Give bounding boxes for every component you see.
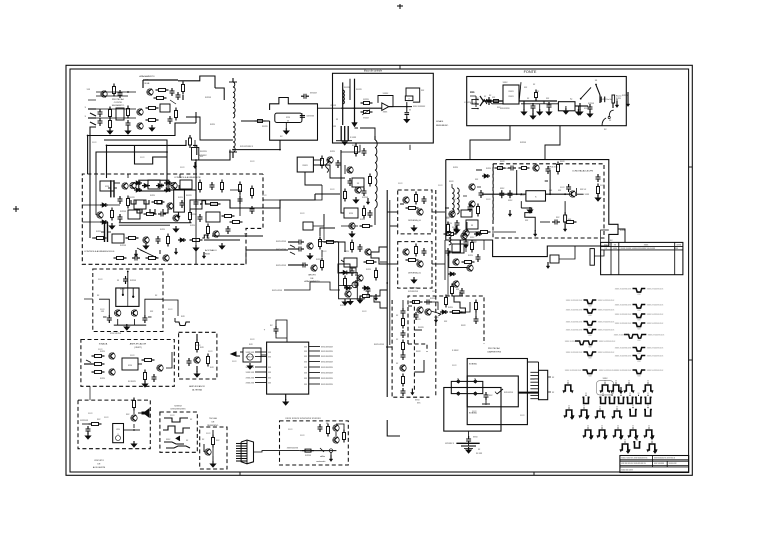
svg-text:XXXX XXXXX XXXXXXXXXXXXX XX-XX: XXXX XXXXX XXXXXXXXXXXXX XX-XXXXX: [621, 248, 656, 250]
svg-text:XXXXXX: XXXXXX: [310, 93, 318, 95]
svg-text:XXX.XXXXXX.X: XXX.XXXXXX.X: [240, 146, 254, 148]
svg-text:XXXX.X.XXXXX.XX.X: XXXX.X.XXXXX.XX.X: [647, 323, 664, 325]
svg-text:XXXX: XXXX: [360, 219, 366, 221]
svg-text:XXXX: XXXX: [486, 168, 492, 170]
svg-text:adBor: adBor: [320, 455, 325, 458]
svg-text:XXXX: XXXX: [302, 165, 308, 167]
svg-text:XXXX: XXXX: [100, 378, 106, 380]
svg-text:SINAIS: SINAIS: [436, 120, 444, 123]
svg-text:(VERT): (VERT): [134, 347, 142, 349]
svg-text:XXXX.X.XXXXX.XX.X: XXXX.X.XXXXX.XX.X: [647, 289, 664, 291]
svg-text:XXXX.XXXX: XXXX.XXXX: [374, 344, 385, 346]
svg-text:XX: XX: [647, 393, 649, 395]
svg-text:XXX X.X: XXX X.X: [580, 189, 587, 191]
svg-text:XX: XX: [629, 393, 631, 395]
svg-text:REFERENC.: REFERENC.: [207, 425, 219, 427]
svg-text:CONTROLE AC/AVERSOR ES: CONTROLE AC/AVERSOR ES: [84, 250, 115, 253]
svg-text:XXX: XXX: [304, 378, 307, 380]
svg-text:C/ARRETERS: C/ARRETERS: [487, 351, 502, 354]
svg-text:XX: XX: [624, 440, 626, 442]
svg-text:XX: XX: [636, 437, 638, 439]
svg-text:XXXXXX: XXXXXX: [200, 151, 208, 153]
svg-text:PROTECAO: PROTECAO: [112, 98, 125, 101]
svg-text:XXXXXX: XXXXXX: [199, 155, 207, 157]
svg-text:GRUPO: GRUPO: [308, 275, 316, 277]
svg-text:XXXX: XXXX: [447, 223, 453, 225]
svg-text:XXXX: XXXX: [352, 145, 358, 147]
svg-text:XX.XXX: XX.XXX: [476, 453, 483, 455]
svg-text:AON.GENTE: AON.GENTE: [93, 466, 106, 469]
svg-text:XX: XX: [604, 381, 606, 383]
svg-text:XXXXX: XXXXX: [120, 211, 127, 213]
svg-text:DE: DE: [310, 278, 314, 280]
svg-text:XXX: XXX: [268, 377, 271, 379]
svg-text:XXXXX: XXXXX: [340, 305, 347, 307]
svg-text:XXXX.XXXXXX: XXXX.XXXXXX: [321, 346, 334, 348]
svg-text:XX: XX: [409, 110, 411, 112]
svg-text:XXXXXX X: XXXXXX X: [445, 443, 455, 445]
svg-text:CONTROLE AC/AVERSTR: CONTROLE AC/AVERSTR: [174, 176, 201, 179]
svg-text:XXXXX: XXXXX: [305, 455, 312, 457]
svg-text:REFERENC.: REFERENC.: [436, 125, 449, 127]
svg-text:XX: XX: [585, 393, 587, 395]
svg-text:XX: XX: [568, 406, 570, 408]
svg-text:XXXX.X.XXXXX.XX.X: XXXX.X.XXXXX.XX.X: [615, 348, 632, 350]
svg-text:XX: XX: [617, 426, 619, 428]
svg-text:XXXX: XXXX: [603, 378, 609, 380]
svg-text:XXXX.X.XXXXX.XX.X: XXXX.X.XXXXX.XX.X: [599, 341, 616, 343]
svg-text:XXXXXXXXXXXX: XXXXXXXXXXXX: [170, 409, 186, 411]
svg-text:APAGAMENTO: APAGAMENTO: [304, 280, 320, 283]
svg-text:XXXX.X.XXXXX.XX.X: XXXX.X.XXXXX.XX.X: [566, 300, 583, 302]
svg-text:XXXX.X.XXXXX.XX.X: XXXX.X.XXXXX.XX.X: [647, 305, 664, 307]
svg-text:XXXXXXX: XXXXXXX: [307, 116, 315, 118]
svg-text:XXXX.XXXXXX: XXXX.XXXXXX: [321, 356, 334, 358]
svg-text:APAGAMENTO: APAGAMENTO: [139, 75, 155, 78]
svg-text:XXXXXXXXXX X XXX XXX X: XXXXXXXXXX X XXX XXX X: [654, 457, 676, 459]
svg-text:XXXX: XXXX: [508, 91, 514, 93]
svg-text:AMPLIFICADOR: AMPLIFICADOR: [130, 343, 147, 346]
svg-text:X.XXXX: X.XXXX: [452, 350, 459, 352]
svg-text:XXXX: XXXX: [100, 351, 106, 353]
svg-text:XXXX.X.XXXXX.XX.X: XXXX.X.XXXXX.XX.X: [647, 348, 664, 350]
svg-text:DRIVER/A_00: DRIVER/A_00: [408, 219, 422, 222]
svg-text:XXXX.XXXXXX: XXXX.XXXXXX: [321, 367, 334, 369]
svg-text:XXXX.X.XXXXX.XX.X: XXXX.X.XXXXX.XX.X: [599, 370, 616, 372]
svg-text:XXX: XXX: [268, 356, 271, 358]
svg-text:XXXXXXXXXX: XXXXXXXXXX: [287, 448, 299, 450]
svg-text:XXXX.X.XXXXX.XX.X: XXXX.X.XXXXX.XX.X: [648, 335, 665, 337]
svg-text:XXXXXX: XXXXXX: [174, 406, 182, 408]
svg-text:XXXXX: XXXXX: [356, 89, 363, 91]
svg-text:XXX.XXXXX: XXX.XXXXX: [110, 333, 122, 335]
svg-text:XXX: XXX: [304, 356, 307, 358]
svg-text:bloco de controle: bloco de controle: [364, 69, 383, 72]
svg-text:XXXXX: XXXXX: [262, 126, 269, 128]
svg-text:XX: XX: [632, 426, 634, 428]
svg-text:XXXX.X.XXXXX.XX.X: XXXX.X.XXXXX.XX.X: [565, 341, 582, 343]
svg-text:XXXX.X.XXXXX.XX.X: XXXX.X.XXXXX.XX.X: [566, 330, 583, 332]
svg-text:XXXX. XXXX XX XXX XXXXXXX XX: XXXX. XXXX XX XXX XXXXXXX XX: [621, 457, 648, 459]
svg-text:XXXX.XXXXXX: XXXX.XXXXXX: [321, 372, 334, 374]
svg-text:XXXX.XXXXXXX: XXXX.XXXXXXX: [413, 106, 426, 108]
svg-text:XXX: XXX: [268, 352, 271, 354]
svg-text:CONTR.: CONTR.: [114, 102, 123, 104]
svg-text:SINAL/A: SINAL/A: [99, 343, 108, 346]
svg-text:XX: XX: [567, 381, 569, 383]
svg-text:DRIVER/A_00: DRIVER/A_00: [408, 271, 422, 274]
svg-text:XXXX.XXXXXX: XXXX.XXXXXX: [321, 384, 334, 386]
svg-text:XXX: XXX: [304, 372, 307, 374]
svg-text:X.XXXX: X.XXXX: [464, 102, 471, 104]
svg-text:XXXXX: XXXXX: [383, 93, 390, 95]
svg-text:TECLAS: TECLAS: [209, 417, 217, 420]
svg-text:XXXX: XXXX: [160, 229, 166, 231]
svg-text:XX: XX: [587, 426, 589, 428]
svg-text:XXXX.XXXX: XXXX.XXXX: [272, 290, 283, 292]
svg-text:XXXX: XXXX: [503, 82, 509, 84]
svg-text:XXXX.XXXX: XXXX.XXXX: [276, 241, 287, 243]
svg-text:XXXX.X.XXXXX.XX.X: XXXX.X.XXXXX.XX.X: [566, 322, 583, 324]
svg-text:XXXX.X.XXXXX.XX.X: XXXX.X.XXXXX.XX.X: [615, 356, 632, 358]
svg-text:XXXXXXXX: XXXXXXXX: [408, 291, 419, 293]
svg-text:ACIONADO: ACIONADO: [205, 249, 217, 252]
svg-text:XXXX.X.XXXXX.XX.X: XXXX.X.XXXXX.XX.X: [615, 289, 632, 291]
svg-text:XXXX.X.XXXXX.XX.X: XXXX.X.XXXXX.XX.X: [566, 310, 583, 312]
svg-text:XXXX.X.XXXXX.XX.X: XXXX.X.XXXXX.XX.X: [566, 352, 583, 354]
svg-text:XXXX.X.XXXXX.XX.X: XXXX.X.XXXXX.XX.X: [615, 305, 632, 307]
svg-text:XX: XX: [620, 393, 622, 395]
svg-text:XXX XXXXXX: XXX XXXXXX: [654, 463, 665, 465]
svg-text:XXXX.X.XXXXX.XX.X: XXXX.X.XXXXX.XX.X: [615, 314, 632, 316]
svg-text:XXXX.X.XXXXX.XX.X: XXXX.X.XXXXX.XX.X: [598, 352, 615, 354]
svg-text:XXX.XXXX: XXX.XXXX: [504, 392, 514, 394]
svg-text:XXXX: XXXX: [453, 167, 459, 169]
svg-text:RGB: RGB: [205, 254, 210, 256]
svg-text:XXX: XXX: [304, 367, 307, 369]
svg-text:XXX: XXX: [268, 367, 271, 369]
svg-text:XXXX.X.XXXXX.XX.X: XXXX.X.XXXXX.XX.X: [598, 300, 615, 302]
svg-text:CIRCUITO: CIRCUITO: [94, 460, 104, 462]
svg-text:XX: XX: [651, 440, 653, 442]
svg-text:XX: XX: [615, 381, 617, 383]
svg-text:XXXX: XXXX: [430, 298, 436, 300]
svg-text:XXX: XXX: [268, 382, 271, 384]
svg-text:SEGMENTO: SEGMENTO: [112, 105, 125, 107]
svg-text:XX: XX: [611, 393, 613, 395]
svg-text:XXXXX: XXXXX: [130, 280, 137, 282]
svg-text:XXXX.XXX: XXXX.XXX: [246, 382, 255, 384]
svg-text:XXXX: XXXX: [470, 92, 476, 94]
svg-text:XXX XX XXX XX.XXX.XXX.XX XX: XXX XX XXX XX.XXX.XXX.XX XX: [621, 463, 646, 465]
svg-text:continuado: continuado: [316, 460, 325, 463]
svg-text:XXXX: XXXX: [190, 225, 196, 227]
svg-text:XXX: XXX: [128, 365, 133, 367]
svg-text:XXX: XXX: [304, 361, 307, 363]
svg-text:X.XXXX: X.XXXX: [350, 137, 357, 139]
svg-text:BOBINA: BOBINA: [469, 363, 477, 366]
svg-text:XXXX: XXXX: [468, 255, 474, 257]
svg-text:XXXX.X.XXXXX.XX.X: XXXX.X.XXXXX.XX.X: [598, 330, 615, 332]
svg-text:XX: XX: [602, 393, 604, 395]
svg-text:Riceve: Riceve: [616, 96, 622, 98]
svg-text:ALTERNA: ALTERNA: [192, 389, 202, 392]
svg-text:XXXX: XXXX: [96, 231, 102, 233]
svg-text:XXX: XXX: [304, 384, 307, 386]
svg-text:XXXX.XXX: XXXX.XXX: [246, 372, 255, 374]
svg-text:Fio.Xo: Fio.Xo: [607, 99, 612, 101]
svg-text:XX: XX: [648, 426, 650, 428]
svg-text:XX: XX: [583, 406, 585, 408]
svg-text:XXXXX: XXXXX: [520, 142, 527, 144]
svg-text:XXXXX: XXXXX: [418, 327, 425, 329]
svg-text:XX: XX: [599, 407, 601, 409]
svg-text:XXX: XXX: [304, 346, 307, 348]
svg-text:XX: XX: [601, 426, 603, 428]
svg-text:XXXXX: XXXXX: [330, 105, 337, 107]
svg-text:XX: XX: [628, 381, 630, 383]
svg-text:XX: XX: [647, 381, 649, 383]
svg-text:Xp: Xp: [570, 99, 572, 101]
svg-text:XXXX.X.XXXXX.XX.X: XXXX.X.XXXXX.XX.X: [614, 335, 631, 337]
svg-text:XXXX.XXXXXX: XXXX.XXXXXX: [321, 361, 334, 363]
svg-text:XXXX.XXXXXX: XXXX.XXXXXX: [321, 351, 334, 353]
svg-text:XXXXXXXXX: XXXXXXXXX: [500, 108, 511, 110]
svg-text:XXXX: XXXX: [448, 307, 454, 309]
svg-text:XXXXX: XXXXX: [363, 118, 370, 120]
svg-text:FONTE: FONTE: [524, 70, 537, 74]
svg-text:XXXX.X.XXXXX.XX.X: XXXX.X.XXXXX.XX.X: [615, 370, 632, 372]
svg-text:XXXX.X.XXXXX.XX.X: XXXX.X.XXXXX.XX.X: [647, 370, 664, 372]
svg-text:XXXX: XXXX: [508, 96, 514, 98]
svg-text:PROTECAO: PROTECAO: [488, 347, 501, 350]
svg-text:XXXX XX XXXX: XXXX XX XXXX: [621, 470, 633, 472]
svg-text:XXXXX: XXXXX: [588, 103, 595, 105]
svg-text:XXXX: XXXX: [366, 269, 372, 271]
svg-text:XXXX.XXXXXX: XXXX.XXXXXX: [321, 378, 334, 380]
svg-text:XXX: XXX: [286, 117, 291, 119]
svg-text:COMUTACAO AC/FN: COMUTACAO AC/FN: [572, 170, 594, 173]
svg-text:XXXXX: XXXXX: [363, 99, 370, 101]
svg-text:XXXX.X.XXXXX.XX.X: XXXX.X.XXXXX.XX.X: [615, 323, 632, 325]
svg-text:XXXX XXXXX XXXXXXXX XXXXXX: XXXX XXXXX XXXXXXXX XXXXXX: [285, 418, 321, 420]
svg-text:XXX: XXX: [268, 372, 271, 374]
svg-text:RGB: RGB: [145, 83, 150, 85]
svg-text:XXXX.XXXX: XXXX.XXXX: [276, 265, 287, 267]
svg-text:XXXXX: XXXXX: [205, 97, 212, 99]
svg-text:XXXX: XXXX: [150, 195, 156, 197]
svg-text:XX: XX: [616, 407, 618, 409]
svg-text:XX: XX: [637, 393, 639, 395]
svg-text:XXXXX: XXXXX: [186, 195, 193, 197]
svg-text:XXXX.X.XXXXX.XX.X: XXXX.X.XXXXX.XX.X: [647, 314, 664, 316]
svg-text:XXXX.X.XXXXX.XX.X: XXXX.X.XXXXX.XX.X: [598, 310, 615, 312]
svg-text:XXXXXXX: XXXXXXX: [80, 420, 89, 422]
svg-text:XXXX: XXXX: [178, 197, 184, 199]
svg-text:XXXX: XXXX: [344, 251, 350, 253]
svg-text:XXXX.XXX: XXXX.XXX: [246, 377, 255, 379]
svg-text:XX: XX: [632, 405, 634, 407]
svg-text:XXXX: XXXX: [330, 151, 336, 153]
svg-text:XXXX.X.XXXXX.XX.X: XXXX.X.XXXXX.XX.X: [565, 370, 582, 372]
svg-text:XXXX.X.XXXXX.XX.X: XXXX.X.XXXXX.XX.X: [598, 322, 615, 324]
svg-text:XX: XX: [647, 405, 649, 407]
svg-text:XXXX: XXXX: [210, 124, 216, 126]
svg-text:XXXX.X.XXXXX.XX.X: XXXX.X.XXXXX.XX.X: [647, 356, 664, 358]
svg-text:AMPLIFICADOR: AMPLIFICADOR: [189, 385, 205, 388]
svg-text:XXX: XXX: [349, 213, 354, 215]
svg-text:XXXXX: XXXXX: [120, 245, 127, 247]
svg-text:XXXX XXX: XXXX XXX: [669, 463, 678, 465]
svg-text:XXXXX: XXXXX: [129, 197, 136, 199]
svg-text:XX.XXXX: XX.XXXX: [128, 381, 136, 383]
svg-text:XXXXXX: XXXXXX: [409, 288, 417, 290]
svg-text:XXX: XXX: [304, 351, 307, 353]
